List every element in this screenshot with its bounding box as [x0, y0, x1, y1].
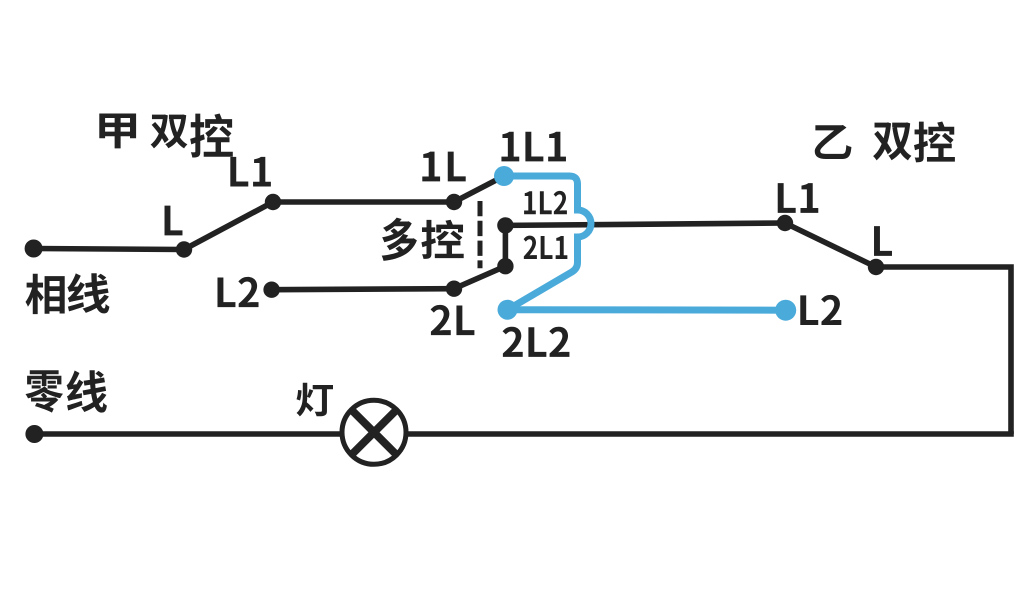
label: lamp 灯 [296, 383, 333, 417]
label: neutral line 零线 [25, 370, 106, 412]
node 1L1 (blue) [494, 166, 514, 186]
node L1: switch A [265, 194, 281, 210]
label: switch A terminal L2 [217, 277, 258, 307]
node 2L2 (blue) [498, 300, 518, 320]
wire: switch A L2 to multi-switch 2L [272, 289, 454, 290]
wire: phase line from source to switch A common L [34, 249, 184, 250]
node 2L1 [497, 258, 513, 274]
label: phase line 相线 [26, 273, 110, 314]
label: switch B title 乙 双控 [815, 122, 955, 163]
label: multi-switch terminal 1L1 [501, 132, 566, 162]
blue wire: 1L1 to 2L2 with hop over black wire [504, 176, 591, 310]
switch B blade: L1 to L [785, 223, 876, 267]
multi-switch blade: 2L to 2L1 [454, 266, 505, 289]
label: switch B terminal L [874, 226, 892, 256]
lamp (circle with X cross) [342, 400, 406, 464]
node 1L [446, 194, 462, 210]
node L2: switch B (blue) [775, 300, 796, 321]
wire: switch B common L to right edge and down [876, 267, 1011, 434]
node L2: switch A [263, 282, 279, 298]
label: switch A title 甲 双控 [99, 113, 233, 157]
node 2L [446, 281, 462, 297]
mechanical link of multi-control switch (dashed) [478, 201, 483, 268]
node L: switch A common [176, 241, 192, 257]
blue wire: 2L2 to switch B terminal L2 [508, 306, 786, 314]
label: multi-switch terminal 2L2 [503, 327, 570, 357]
label: switch A terminal L [165, 206, 183, 236]
node: phase source terminal [25, 240, 43, 258]
node L: switch B [868, 259, 884, 275]
node L1: switch B [777, 215, 793, 231]
wire: 1L2 to switch B terminal L1 [505, 223, 785, 225]
wire: lamp to switch B return [407, 431, 1014, 437]
wire: switch A L1 to multi-switch 1L [273, 199, 454, 205]
wire: neutral line from source to lamp [34, 431, 341, 437]
label: multi-switch terminal 2L1 [524, 236, 568, 259]
label: switch B terminal L2 [800, 295, 841, 325]
node 1L2 [497, 217, 513, 233]
label: multi-switch terminal 2L [431, 305, 475, 335]
multi-switch blade: 1L to 1L1 [454, 176, 504, 202]
node: neutral source terminal [25, 425, 43, 443]
label: multi-control switch 多控 [382, 218, 464, 261]
label: switch B terminal L1 [778, 183, 819, 213]
wire: 1L2 to 2L1 [503, 225, 509, 266]
label: multi-switch terminal 1L [422, 152, 465, 182]
switch A blade: L to L1 [184, 202, 273, 250]
label: switch A terminal L1 [230, 157, 271, 187]
label: multi-switch terminal 1L2 [524, 191, 567, 214]
